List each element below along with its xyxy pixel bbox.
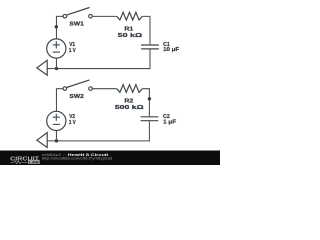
junction dot bottom node of V1	[55, 67, 58, 70]
switch SW1	[63, 8, 92, 19]
svg-text:500 kΩ: 500 kΩ	[115, 105, 144, 111]
junction dot on V1-SW1 wire	[55, 25, 58, 28]
wire SW2 right terminal to R2	[92, 88, 117, 90]
svg-text:R2: R2	[124, 99, 133, 105]
wire top-left vertical segment (SW2 corner down to V2 top)	[55, 89, 57, 112]
footer bar	[0, 151, 220, 166]
value label 50 kOhm	[118, 33, 143, 39]
junction dot on R2-C2 wire	[148, 97, 151, 100]
label SW1	[69, 22, 84, 28]
wire C1 bottom to bottom-right corner and left along bottom	[56, 49, 150, 68]
CircuitLab logo wordmark CIRCUIT	[10, 156, 39, 162]
svg-text:SW2: SW2	[69, 94, 83, 100]
wire R2 to top-right corner and down to C2	[142, 89, 149, 117]
value label 1 V (top source)	[69, 48, 76, 54]
ground symbol (top circuit)	[37, 60, 47, 75]
svg-text:10 μF: 10 μF	[163, 47, 180, 53]
label R1	[124, 27, 134, 33]
wire top horizontal stub (corner to SW2 left terminal)	[56, 88, 63, 90]
CircuitLab logo LAB with resistor squiggle	[11, 159, 40, 164]
svg-text:http://circuitlab.com/c95J7ym5: http://circuitlab.com/c95J7ym5ypbad	[42, 157, 113, 161]
capacitor C1	[141, 45, 159, 49]
wire V2 bottom lead	[55, 130, 57, 140]
svg-text:R1: R1	[124, 27, 134, 33]
svg-text:SW1: SW1	[69, 22, 84, 28]
svg-text:1 V: 1 V	[69, 48, 76, 54]
svg-text:1 V: 1 V	[69, 120, 76, 126]
footer title line	[42, 153, 110, 157]
wire top-left vertical segment (SW1 corner down to V1 top)	[55, 16, 57, 39]
junction dot bottom node of V2	[55, 139, 58, 142]
label SW2	[69, 94, 83, 100]
wire R1 to top-right corner and down to C1	[142, 16, 150, 44]
ground symbol (bottom circuit)	[37, 133, 47, 148]
wire top horizontal stub (corner to SW1 left terminal)	[56, 15, 63, 17]
voltage source V2	[47, 111, 66, 130]
value label 1 V (bottom source)	[69, 120, 76, 126]
wire ground stub to V1 bottom node	[47, 68, 56, 70]
resistor R2	[117, 85, 143, 93]
voltage source V1	[47, 39, 66, 58]
label V1	[69, 42, 76, 48]
wire ground stub to V2 bottom node	[47, 140, 56, 142]
svg-text:50 kΩ: 50 kΩ	[118, 33, 143, 39]
capacitor C2	[141, 117, 159, 121]
footer url line	[42, 157, 113, 161]
switch SW2	[63, 80, 92, 90]
value label 500 kOhm	[115, 105, 144, 111]
label C2	[163, 114, 170, 120]
svg-text:LAB: LAB	[29, 159, 39, 164]
label C1	[163, 42, 170, 48]
wire C2 bottom to bottom-right corner and left along bottom	[56, 121, 149, 141]
wire V1 bottom lead	[55, 58, 57, 68]
value label 10 uF	[163, 47, 180, 53]
label V2	[69, 114, 75, 120]
label R2	[124, 99, 133, 105]
wire SW1 right terminal to R1	[92, 15, 117, 17]
resistor R1	[117, 12, 143, 20]
value label 1 uF	[163, 120, 176, 126]
svg-text:1 μF: 1 μF	[163, 120, 176, 126]
